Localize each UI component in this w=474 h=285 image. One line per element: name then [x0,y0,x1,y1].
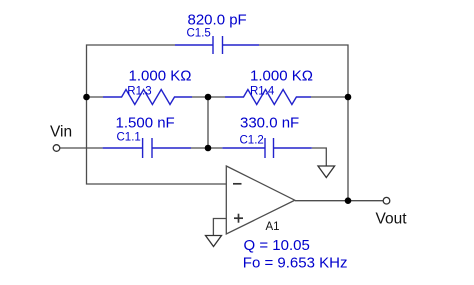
capacitor C1.5 [175,36,259,54]
svg-text:R1.4: R1.4 [250,86,275,98]
svg-text:1.000 KΩ: 1.000 KΩ [250,68,313,85]
ground at C1.2 [318,166,335,178]
svg-text:Vin: Vin [50,124,72,141]
op-amp minus sign [233,183,242,185]
svg-text:Q = 10.05: Q = 10.05 [244,237,310,254]
ground at op-amp plus input [206,236,222,247]
node junction dot mid row3 [205,145,212,152]
wire op-amp plus input to ground [213,219,226,236]
capacitor C1.1 [103,138,191,158]
svg-text:Fo = 9.653 KHz: Fo = 9.653 KHz [243,255,348,272]
op-amp A1 [226,166,294,234]
wire row3 Vin to C1.1 [60,147,103,149]
wire row3 C1.2 to ground corner [312,148,327,166]
wire top left segment [87,45,176,97]
wire top right segment [259,45,348,97]
resistor R1.3 [103,90,192,105]
svg-text:C1.2: C1.2 [240,134,264,146]
op-amp plus sign [234,217,243,219]
wire row3 C1.1 to node [191,147,222,149]
svg-text:R1.3: R1.3 [127,86,151,98]
terminal Vin [53,145,60,152]
svg-text:C1.5: C1.5 [187,27,211,39]
svg-text:A1: A1 [266,221,280,233]
svg-text:1.500 nF: 1.500 nF [116,115,175,132]
wire right rail lower [347,97,349,201]
svg-text:C1.1: C1.1 [117,131,141,143]
svg-text:1.000 KΩ: 1.000 KΩ [129,68,192,85]
wires (black nets) [60,45,383,236]
svg-text:330.0 nF: 330.0 nF [240,115,299,132]
wire mid vertical node to node [207,97,209,148]
svg-text:820.0 pF: 820.0 pF [188,12,247,29]
wire left rail lower + minus input feed [87,97,227,184]
terminal Vout [383,197,390,204]
wire output [295,200,383,202]
node junction dot mid row2 [205,94,212,101]
wire row2 left black parts [87,96,104,98]
node junction dot right rail row2 [345,94,352,101]
node junction dot output [345,197,352,204]
resistor R1.4 [225,90,311,105]
node junction dot left rail row2 [83,94,90,101]
svg-text:Vout: Vout [376,211,408,228]
capacitor C1.2 [222,138,311,158]
